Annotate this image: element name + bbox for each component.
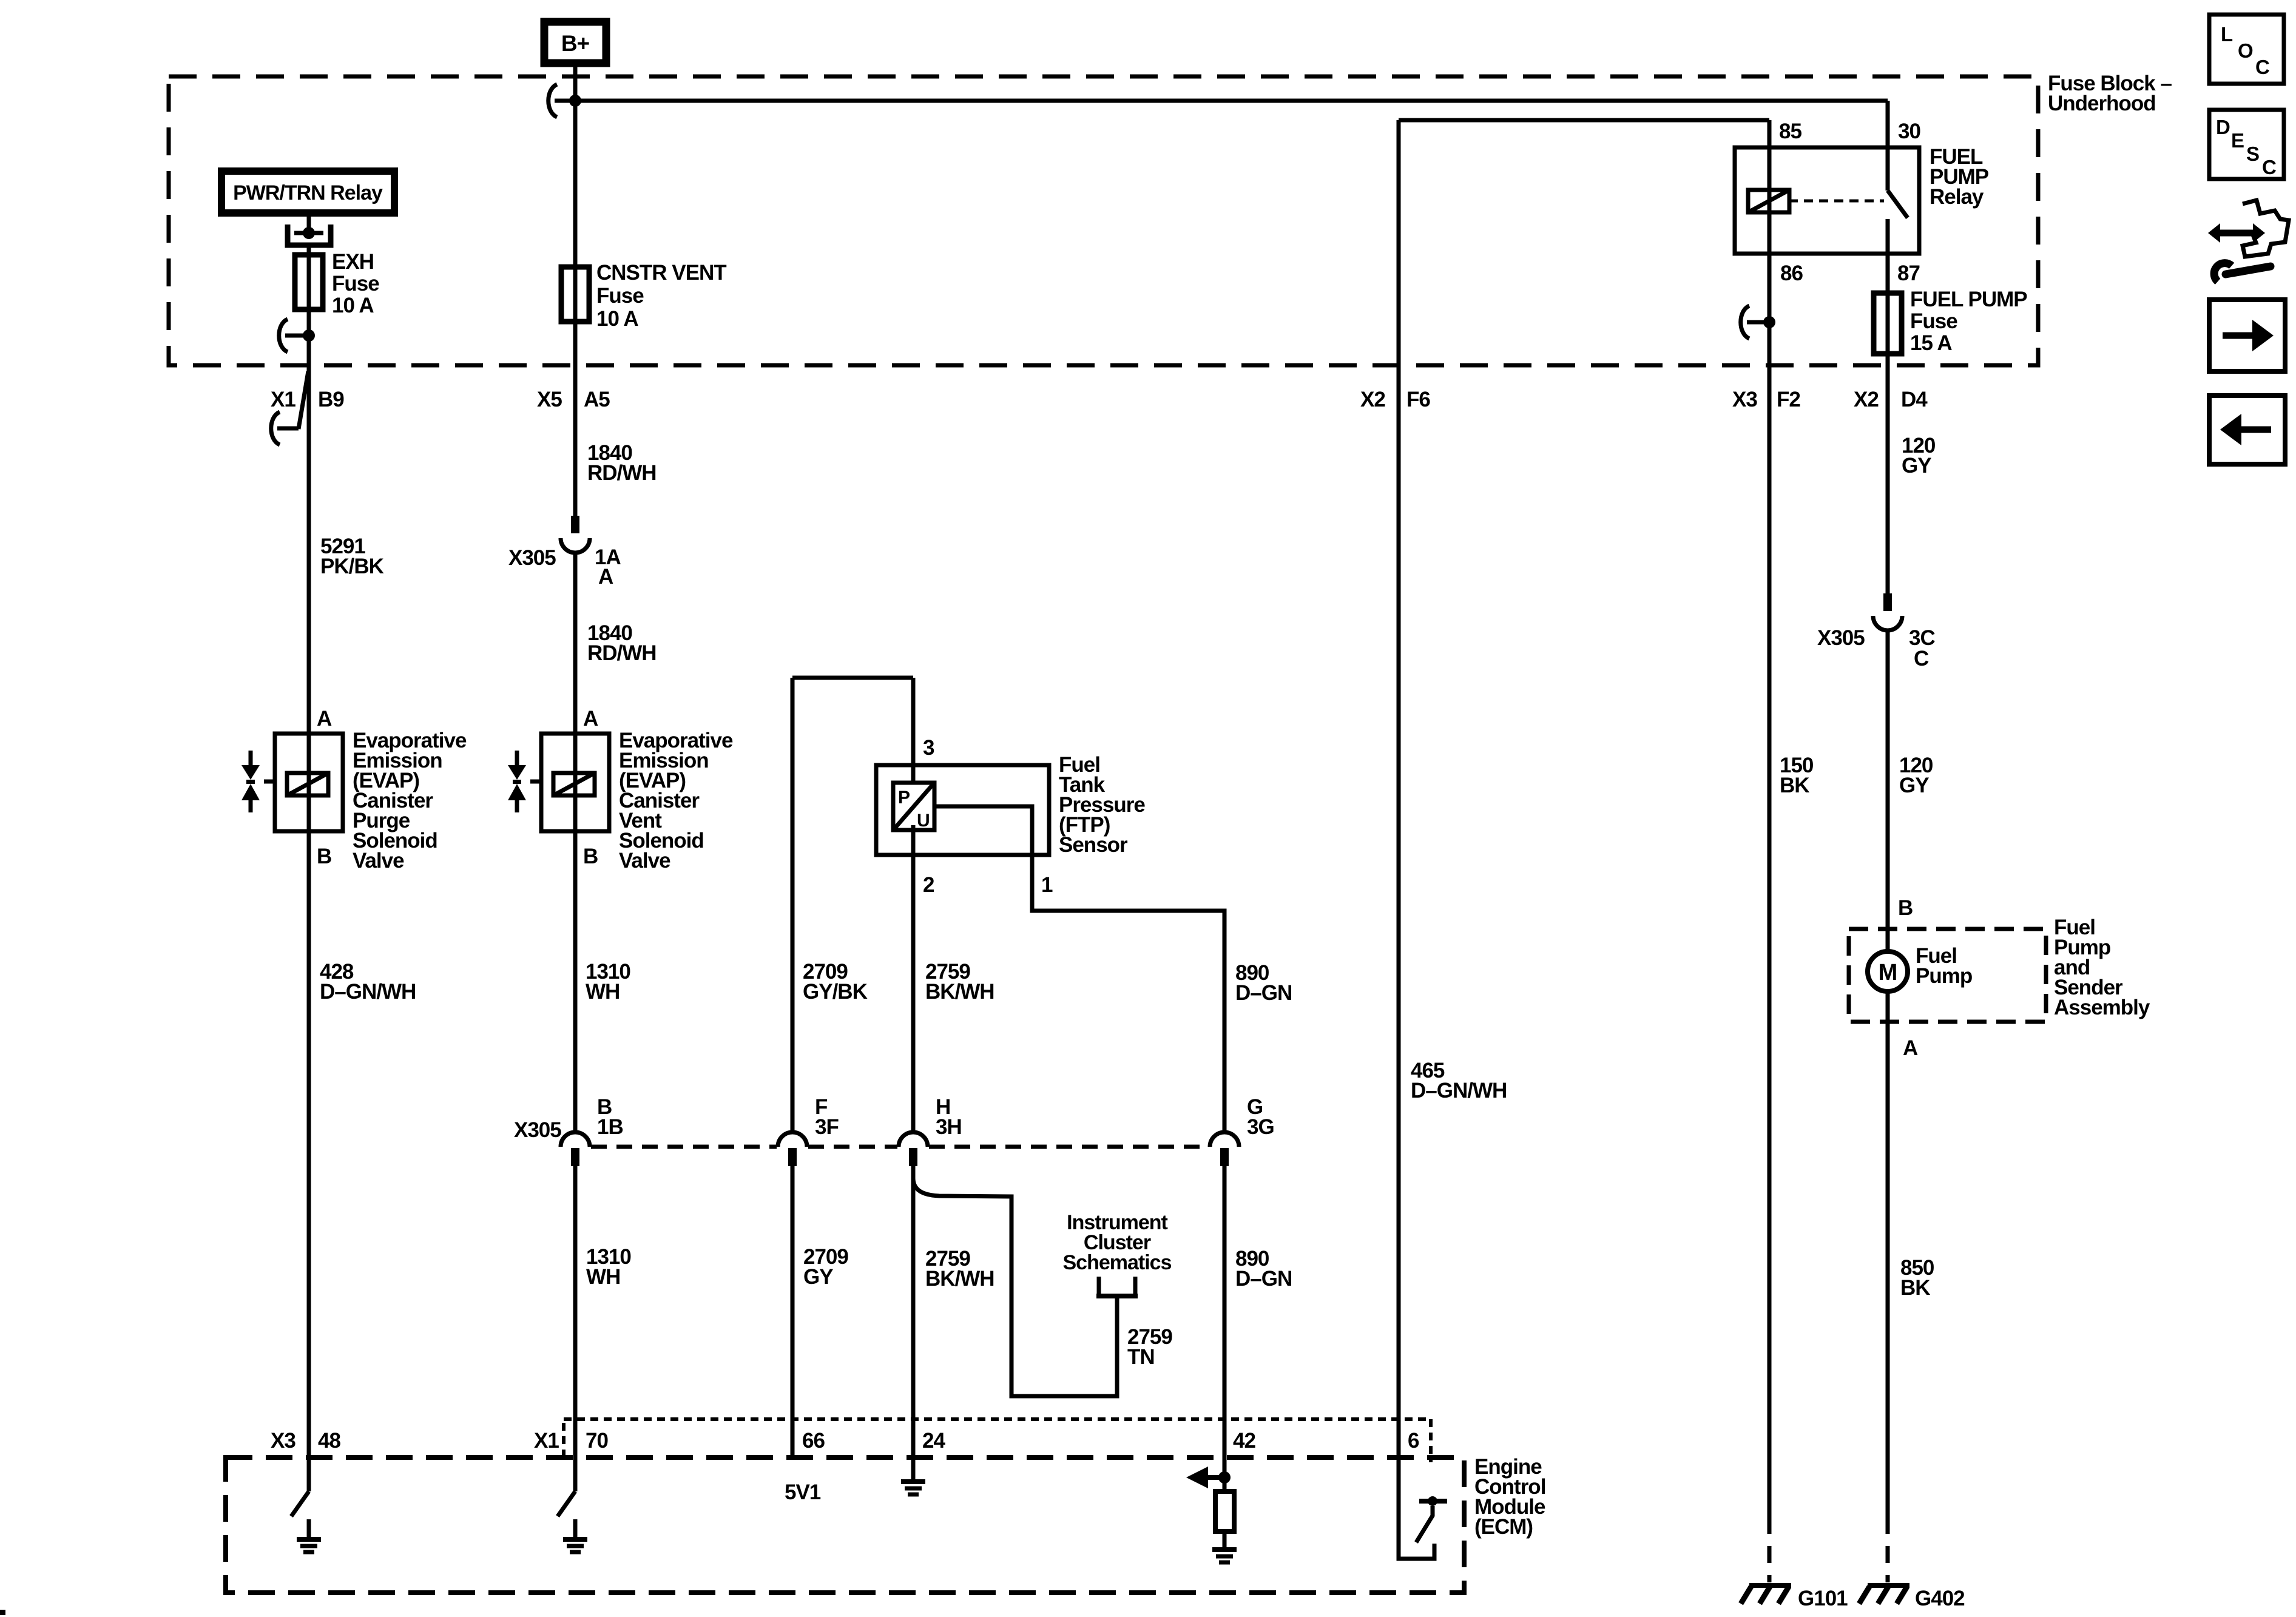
svg-text:1B: 1B	[597, 1115, 623, 1139]
svg-text:P: P	[898, 788, 910, 808]
svg-text:A: A	[598, 565, 613, 589]
svg-text:TN: TN	[1127, 1345, 1155, 1369]
svg-text:RD/WH: RD/WH	[587, 641, 657, 665]
svg-text:86: 86	[1780, 262, 1803, 285]
svg-text:Assembly: Assembly	[2054, 996, 2150, 1019]
svg-text:WH: WH	[586, 980, 620, 1004]
svg-text:C: C	[2262, 156, 2276, 178]
svg-text:Schematics: Schematics	[1063, 1251, 1172, 1274]
svg-text:M: M	[1879, 960, 1897, 985]
svg-text:F6: F6	[1406, 388, 1430, 411]
svg-text:PK/BK: PK/BK	[320, 555, 384, 578]
svg-text:C: C	[2255, 56, 2269, 78]
svg-text:D–GN: D–GN	[1235, 1267, 1292, 1291]
svg-text:X3: X3	[1732, 388, 1757, 411]
svg-text:C: C	[1914, 647, 1929, 670]
svg-text:O: O	[2238, 39, 2253, 62]
svg-text:5V1: 5V1	[785, 1480, 821, 1504]
svg-text:D–GN: D–GN	[1235, 981, 1292, 1005]
svg-text:E: E	[2231, 129, 2244, 152]
svg-text:B: B	[317, 845, 331, 868]
svg-text:G402: G402	[1915, 1587, 1965, 1610]
svg-text:L: L	[2221, 23, 2233, 46]
svg-text:2: 2	[923, 873, 934, 897]
svg-text:A: A	[1903, 1036, 1918, 1060]
svg-text:48: 48	[318, 1429, 340, 1453]
svg-text:Sensor: Sensor	[1059, 833, 1128, 857]
svg-text:X3: X3	[271, 1429, 295, 1453]
svg-text:X305: X305	[508, 546, 556, 570]
svg-text:GY: GY	[1899, 774, 1929, 797]
svg-text:GY: GY	[803, 1265, 833, 1289]
svg-text:66: 66	[802, 1429, 825, 1453]
svg-text:X2: X2	[1854, 388, 1879, 411]
svg-text:G101: G101	[1798, 1587, 1848, 1610]
svg-text:(ECM): (ECM)	[1474, 1515, 1533, 1539]
svg-text:X305: X305	[514, 1118, 561, 1142]
svg-text:GY: GY	[1902, 454, 1931, 478]
svg-text:FUEL PUMP: FUEL PUMP	[1910, 288, 2027, 311]
svg-text:WH: WH	[586, 1265, 620, 1289]
svg-text:A: A	[317, 707, 332, 731]
svg-text:10 A: 10 A	[596, 307, 638, 331]
svg-text:D: D	[2216, 116, 2230, 138]
svg-text:F2: F2	[1777, 388, 1800, 411]
svg-text:Relay: Relay	[1930, 185, 1984, 209]
svg-text:Valve: Valve	[353, 849, 404, 873]
svg-text:15 A: 15 A	[1910, 331, 1952, 355]
svg-text:3: 3	[923, 736, 934, 760]
svg-text:BK/WH: BK/WH	[925, 980, 994, 1004]
svg-text:PWR/TRN Relay: PWR/TRN Relay	[233, 181, 383, 204]
svg-text:CNSTR VENT: CNSTR VENT	[596, 261, 726, 285]
svg-text:42: 42	[1233, 1429, 1255, 1453]
svg-text:Pump: Pump	[1916, 964, 1972, 988]
svg-text:30: 30	[1898, 120, 1920, 143]
svg-text:70: 70	[586, 1429, 608, 1453]
svg-text:U: U	[917, 811, 930, 831]
svg-text:A5: A5	[584, 388, 610, 411]
svg-text:1: 1	[1041, 873, 1053, 897]
svg-text:3G: 3G	[1247, 1115, 1274, 1139]
svg-text:B9: B9	[318, 388, 344, 411]
svg-text:A: A	[583, 707, 598, 731]
svg-text:24: 24	[922, 1429, 945, 1453]
svg-text:S: S	[2246, 143, 2259, 165]
svg-text:6: 6	[1408, 1429, 1419, 1453]
svg-text:X305: X305	[1817, 626, 1865, 650]
svg-text:D4: D4	[1901, 388, 1928, 411]
svg-text:BK/WH: BK/WH	[925, 1267, 994, 1291]
svg-text:3F: 3F	[815, 1115, 839, 1139]
svg-text:Fuse: Fuse	[332, 272, 379, 295]
svg-text:B: B	[583, 845, 598, 868]
svg-text:87: 87	[1897, 262, 1920, 285]
svg-text:10 A: 10 A	[332, 294, 374, 317]
svg-text:BK: BK	[1900, 1276, 1930, 1300]
svg-text:X1: X1	[271, 388, 295, 411]
svg-text:Valve: Valve	[619, 849, 670, 873]
svg-text:B+: B+	[561, 31, 590, 56]
svg-text:X1: X1	[534, 1429, 559, 1453]
svg-text:BK: BK	[1780, 774, 1809, 797]
svg-text:Underhood: Underhood	[2048, 92, 2156, 115]
svg-text:D–GN/WH: D–GN/WH	[1411, 1079, 1507, 1102]
svg-text:Fuse: Fuse	[1910, 309, 1957, 333]
svg-text:EXH: EXH	[332, 250, 374, 274]
svg-text:GY/BK: GY/BK	[803, 980, 868, 1004]
svg-text:Fuse: Fuse	[596, 284, 644, 308]
svg-text:3H: 3H	[936, 1115, 962, 1139]
svg-text:X5: X5	[537, 388, 562, 411]
svg-text:B: B	[1898, 896, 1913, 920]
svg-text:85: 85	[1779, 120, 1801, 143]
svg-text:RD/WH: RD/WH	[587, 461, 657, 485]
svg-text:D–GN/WH: D–GN/WH	[320, 980, 416, 1004]
svg-text:X2: X2	[1360, 388, 1385, 411]
